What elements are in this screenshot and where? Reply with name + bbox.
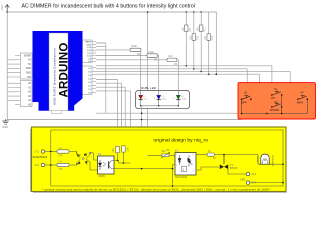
svg-text:VIN: VIN bbox=[27, 76, 31, 79]
wire O-1 to R1a bbox=[45, 151, 57, 153]
svg-text:10K: 10K bbox=[189, 36, 192, 41]
wire rail corner drop bbox=[215, 12, 217, 74]
wire MOC pin2 down bbox=[173, 165, 176, 187]
svg-text:LAMPA: LAMPA bbox=[257, 156, 260, 164]
opto U2 4N25 bbox=[98, 153, 115, 178]
node +5V junction bbox=[6, 11, 8, 13]
wire MAX to rail bbox=[306, 99, 308, 113]
wire R3 to LED2 bbox=[158, 56, 159, 91]
node O1 loop bbox=[50, 151, 52, 153]
svg-text:original design by niq_ro: original design by niq_ro bbox=[154, 138, 209, 144]
lamp LP1 bbox=[257, 154, 275, 166]
svg-text:UP: UP bbox=[271, 96, 275, 100]
wire D3 down to module bbox=[96, 91, 130, 163]
svg-text:DUBL LED: DUBL LED bbox=[141, 86, 157, 90]
svg-text:+5V: +5V bbox=[0, 5, 4, 10]
+5V supply symbol bbox=[5, 5, 9, 12]
svg-text:5V: 5V bbox=[28, 63, 31, 66]
wire AC loop perimeter bbox=[51, 130, 283, 186]
wire UP DOWN common bbox=[281, 95, 283, 114]
wire MOC pin4 to gate bbox=[196, 167, 219, 170]
wire R4 to LED3 bbox=[177, 60, 178, 91]
svg-text:* aceasta schema este pentru m: * aceasta schema este pentru modulul de … bbox=[42, 188, 271, 192]
wire opto emitter bbox=[112, 168, 173, 170]
wire OFF to rail bbox=[241, 99, 243, 113]
wire D7 to button DOWN bbox=[96, 74, 272, 107]
connector J2 analog header bbox=[20, 81, 32, 107]
node panel joins bbox=[241, 113, 243, 115]
svg-text:1K: 1K bbox=[208, 151, 211, 153]
wire +5V/GND left vertical bbox=[6, 12, 8, 120]
wire GND pin row bbox=[96, 45, 106, 47]
svg-text:MAX: MAX bbox=[297, 100, 303, 104]
wire R1b to bridge bbox=[69, 164, 77, 166]
svg-text:100: 100 bbox=[168, 54, 173, 58]
button panel box bbox=[238, 83, 316, 119]
switch S1 UP bbox=[271, 87, 283, 100]
svg-text:10K: 10K bbox=[204, 36, 207, 41]
node opto nets bbox=[123, 162, 125, 164]
Arduino U1 board body bbox=[33, 31, 83, 111]
ground bbox=[3, 120, 9, 125]
switch S4 MAX bbox=[297, 91, 308, 105]
resistor R4 bbox=[167, 54, 178, 66]
svg-text:albas: albas bbox=[162, 98, 167, 100]
connector J2 pin stubs bbox=[15, 83, 20, 105]
node rail drop bbox=[147, 11, 149, 13]
svg-text:S3: S3 bbox=[244, 91, 248, 95]
svg-text:220V/50Hz: 220V/50Hz bbox=[33, 155, 48, 159]
svg-text:UNO R1/R2 Orecimila Duemila: UNO R1/R2 Orecimila Duemilanove bbox=[53, 48, 57, 105]
wire +5V drop to R3 bbox=[147, 12, 149, 56]
resistor R12 pullup bbox=[204, 12, 214, 74]
wire triac MT2 tap bbox=[223, 155, 225, 164]
svg-text:10K: 10K bbox=[197, 27, 200, 32]
node LED ground joins bbox=[141, 112, 143, 114]
wire bridge to opto bbox=[90, 153, 98, 170]
node rail R7 tap bbox=[200, 11, 202, 13]
resistor R8b pullup zero-cross bbox=[122, 146, 130, 163]
node rail R5 tap bbox=[186, 11, 188, 13]
svg-text:MOC3021: MOC3021 bbox=[175, 175, 188, 179]
svg-text:GND: GND bbox=[26, 67, 32, 70]
Arduino label strip bbox=[49, 33, 68, 111]
node LED bus joins bbox=[140, 105, 141, 106]
svg-text:ARDUINO: ARDUINO bbox=[58, 42, 70, 97]
resistor R1a bbox=[57, 147, 69, 158]
wire LED bus to ground rail bbox=[141, 106, 143, 120]
connector J1 power header bbox=[20, 53, 32, 79]
svg-text:OFF: OFF bbox=[241, 100, 247, 104]
node O2 loop bbox=[50, 164, 52, 166]
resistor R2 bbox=[130, 44, 141, 56]
svg-text:R12: R12 bbox=[211, 35, 214, 40]
resistor R10 pullup bbox=[189, 12, 199, 69]
wire GND drop to module bbox=[141, 120, 143, 169]
svg-text:O-1: O-1 bbox=[35, 150, 40, 154]
wire LED cathode bus bbox=[141, 105, 179, 107]
opto triac U3 MOC3021 bbox=[175, 150, 196, 179]
node lamp loop bbox=[282, 163, 284, 165]
LED L1 red bbox=[136, 90, 148, 105]
resistor R1b bbox=[57, 160, 69, 171]
wire GND row mid bbox=[96, 112, 242, 114]
wire GND bottom rail bbox=[7, 119, 238, 121]
svg-text:180K: 180K bbox=[131, 44, 137, 48]
svg-text:O-2: O-2 bbox=[35, 163, 40, 167]
wire R7 to lamp bbox=[215, 155, 259, 165]
wire D12 to R3 bbox=[96, 55, 147, 57]
wire power pins to left rail bbox=[7, 60, 15, 77]
wire MOC pin6 to R7 bbox=[196, 154, 207, 156]
wire R1a to bridge bbox=[69, 152, 77, 154]
node rail R6 tap bbox=[193, 11, 195, 13]
svg-text:3V: 3V bbox=[28, 59, 31, 62]
svg-text:rosu: rosu bbox=[144, 98, 148, 100]
svg-text:R11: R11 bbox=[204, 27, 207, 32]
node pullup joins bbox=[186, 65, 188, 67]
LED L3 green bbox=[173, 90, 187, 105]
resistor R8a bbox=[113, 146, 119, 161]
diode D2 bbox=[84, 154, 88, 157]
node MOC pin2 nets bbox=[172, 168, 174, 170]
svg-text:AREF: AREF bbox=[85, 41, 91, 44]
wire +5V into trimmer bbox=[148, 154, 162, 156]
wire trimmer to MOC bbox=[169, 154, 175, 156]
svg-text:AC DIMMER for incandescent bul: AC DIMMER for incandescent bulb with 4 b… bbox=[22, 4, 196, 10]
wire analog pins left bbox=[8, 83, 15, 100]
wire D6 down to module R8 bbox=[96, 80, 118, 147]
svg-text:27K: 27K bbox=[59, 154, 64, 157]
diode D3 bbox=[77, 161, 81, 164]
svg-text:O-3: O-3 bbox=[252, 172, 257, 176]
svg-text:R3: R3 bbox=[154, 58, 158, 62]
switch S2 DOWN bbox=[270, 100, 282, 112]
svg-text:DOWN: DOWN bbox=[270, 108, 279, 112]
wire D13 to R2 bbox=[96, 49, 130, 51]
svg-text:BT136: BT136 bbox=[230, 167, 238, 170]
svg-text:verde: verde bbox=[181, 98, 187, 100]
connector J3 pin stubs bbox=[92, 42, 96, 62]
svg-text:4N25: 4N25 bbox=[98, 174, 105, 178]
wire opto collector bbox=[112, 160, 130, 163]
wire D9 to button OFF bbox=[96, 69, 251, 99]
svg-text:10K: 10K bbox=[113, 148, 115, 153]
wire O-4 return bbox=[250, 182, 283, 184]
triac T1 bbox=[220, 155, 238, 172]
terminal O-3 bbox=[246, 172, 249, 175]
node triac top bbox=[223, 154, 225, 156]
wire +5V long drop to dimmer module bbox=[147, 56, 149, 156]
diode bridge D1-D4 bbox=[77, 152, 91, 166]
svg-text:S4: S4 bbox=[300, 91, 304, 95]
dimmer module box bbox=[32, 127, 287, 192]
resistor R3 bbox=[147, 50, 158, 62]
wire D5 down to module bbox=[96, 83, 123, 146]
connector J4 pin stubs bbox=[92, 68, 96, 93]
svg-text:27K: 27K bbox=[59, 168, 64, 171]
wire GND rail into panel bbox=[238, 114, 242, 120]
wire lamp return bbox=[271, 163, 283, 165]
svg-text:S1: S1 bbox=[274, 87, 278, 91]
wire +5V top rail bbox=[7, 11, 216, 13]
svg-text:100K: 100K bbox=[148, 50, 154, 54]
wire D11 to R4 bbox=[96, 59, 167, 61]
resistor R7 bbox=[207, 151, 217, 160]
svg-text:R10: R10 bbox=[196, 35, 199, 40]
node O-4 loop bbox=[282, 182, 284, 184]
diode D4 bbox=[85, 161, 88, 165]
connector J1 pin stubs bbox=[15, 56, 20, 78]
terminal O-1 bbox=[41, 150, 44, 153]
wire panel bottom rail bbox=[242, 113, 308, 115]
terminal O-2in bbox=[41, 163, 44, 166]
dimmer module box shadow bbox=[31, 129, 287, 192]
svg-text:GND: GND bbox=[2, 125, 8, 129]
terminal O-4 bbox=[246, 181, 249, 184]
resistor R9 pullup bbox=[182, 12, 192, 66]
resistor R11 pullup bbox=[197, 12, 207, 71]
wire AREF row bbox=[96, 43, 106, 113]
LED indicator box bbox=[136, 90, 190, 108]
svg-text:GND: GND bbox=[86, 44, 91, 46]
wire triac to O-3 bbox=[228, 172, 246, 174]
svg-text:100W/220V: 100W/220V bbox=[273, 155, 275, 167]
svg-text:10K: 10K bbox=[182, 27, 185, 32]
svg-text:IOREF: IOREF bbox=[24, 54, 32, 57]
svg-text:R2: R2 bbox=[137, 52, 141, 56]
svg-text:R4: R4 bbox=[174, 62, 178, 66]
wire D10 to button UP bbox=[96, 66, 272, 95]
wire D8 to button MAX bbox=[96, 71, 298, 99]
wire R2 to LED1 bbox=[140, 50, 142, 91]
wire O-2 to R1b bbox=[45, 164, 57, 166]
svg-text:GND: GND bbox=[240, 178, 246, 181]
svg-text:S2: S2 bbox=[274, 100, 278, 104]
connector J3 digital header high bbox=[83, 40, 93, 63]
wire D4 down to module bbox=[96, 87, 125, 160]
switch S3 OFF bbox=[241, 91, 252, 105]
svg-text:10K: 10K bbox=[127, 147, 129, 152]
node bridge outputs bbox=[89, 152, 91, 154]
connector J4 digital header low bbox=[83, 66, 93, 95]
diode D1 bbox=[77, 153, 80, 157]
trimmer P1 bbox=[161, 150, 170, 158]
LED L2 blue bbox=[154, 90, 167, 105]
svg-text:GND: GND bbox=[26, 72, 32, 75]
